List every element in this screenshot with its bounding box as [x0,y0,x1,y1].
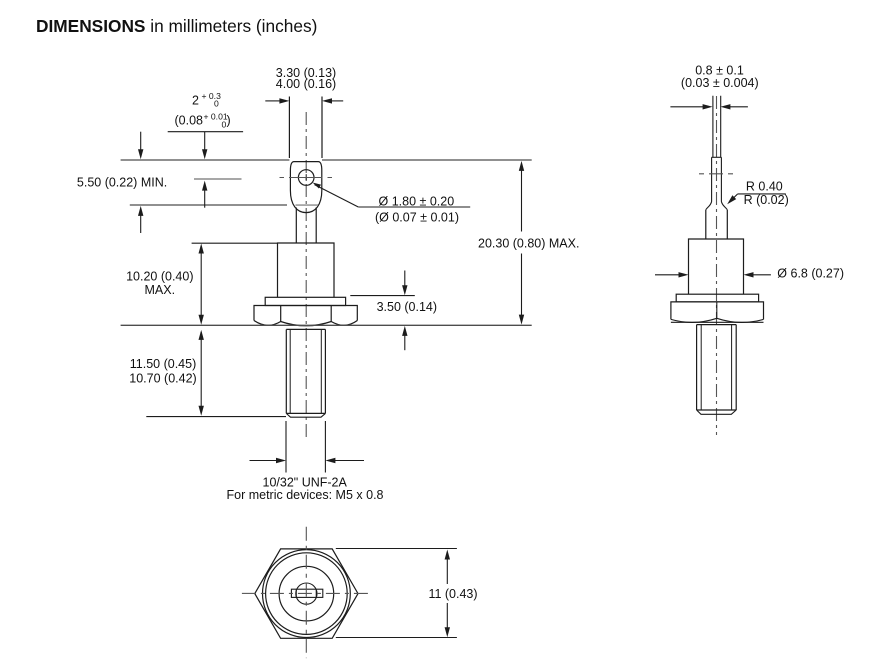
side view body [689,239,744,294]
lead width dim arrows [265,100,280,102]
bottom view chamfer inner circle [266,553,348,635]
svg-text:0: 0 [214,99,219,109]
lug hole center cross [303,174,310,181]
side view hex bottom line [671,321,764,323]
svg-text:DIMENSIONS in millimeters (inc: DIMENSIONS in millimeters (inches) [36,16,317,36]
lead stem below lug [296,208,316,244]
R0.40 leader [730,194,738,202]
dim line 11mm [446,552,448,584]
ext line flange top [350,295,415,297]
threaded stud front view [286,329,325,413]
front view centerline [305,112,307,439]
side view lead upper [713,96,721,158]
svg-text:(Ø 0.07 ± 0.01): (Ø 0.07 ± 0.01) [375,211,459,225]
ext line stud bottom [146,416,286,418]
hole dia leader [315,185,359,207]
svg-text:3.50 (0.14): 3.50 (0.14) [377,300,437,314]
flange washer [265,297,345,305]
3.50 arrow down [404,271,406,287]
dim line 11.50 [200,332,202,413]
bottom view horizontal centerline [242,592,372,594]
underline of 2mm text [168,131,243,133]
stud thread minor lines [290,329,321,413]
dim line 10.20 [200,246,202,322]
side view stud minor lines [701,325,731,410]
front view terminal lug [290,162,321,213]
reference line through lug (gray) [296,204,319,206]
svg-text:R 0.40: R 0.40 [746,180,783,194]
svg-text:Ø 1.80 ± 0.20: Ø 1.80 ± 0.20 [379,194,455,208]
side view flange [676,294,758,302]
5.50 arrow down above lug-top line [140,132,142,150]
stud bottom chamfer [286,413,325,417]
side view stud [697,325,737,410]
ext lines 11mm [336,549,457,638]
side view centerline [716,96,718,435]
svg-text:Ø 6.8 (0.27): Ø 6.8 (0.27) [777,267,844,281]
svg-text:11 (0.43): 11 (0.43) [428,587,477,601]
svg-text:): ) [227,114,231,128]
lead thickness arrows [670,106,703,108]
dim line 2mm (gray) [194,178,242,180]
5.50 arrow up below lug-bottom line [140,215,142,233]
lug hole horizontal centerline [280,177,333,179]
reference line lug bottom [130,204,287,206]
svg-text:10.70 (0.42): 10.70 (0.42) [129,371,196,385]
svg-text:4.00 (0.16): 4.00 (0.16) [276,77,336,91]
reference line hex bottom [121,324,532,326]
svg-text:For metric devices: M5 x 0.8: For metric devices: M5 x 0.8 [227,488,384,502]
side view lead lower [712,157,722,201]
bottom view chamfer circle [263,550,351,638]
svg-text:MAX.: MAX. [145,283,176,297]
side view hex chamfer arcs [671,318,764,322]
svg-text:5.50 (0.22) MIN.: 5.50 (0.22) MIN. [77,175,167,189]
svg-text:11.50 (0.45): 11.50 (0.45) [130,357,196,371]
stud ext lines [286,421,325,473]
hex facet edges [281,306,332,322]
svg-text:R (0.02): R (0.02) [744,193,789,207]
body dia arrows [655,274,679,276]
bottom view lead circle [296,583,317,604]
bottom view lead stem edges [296,589,316,597]
front view flattened lead [289,97,322,159]
bottom view vertical centerline [305,527,307,658]
side view hex [671,302,764,320]
bottom view hexagon [255,549,358,638]
2mm arrow up to gray line [204,190,206,208]
hex nut front view [254,306,357,321]
3.50 arrow up [404,335,406,350]
hex chamfer arcs [254,321,357,326]
svg-text:10.20 (0.40): 10.20 (0.40) [126,269,193,283]
reference line lug top [121,159,532,161]
svg-text:(0.03 ± 0.004): (0.03 ± 0.004) [681,76,759,90]
lug hole [298,170,314,186]
thread dim arrows [250,460,277,462]
2mm leader arrow down [204,132,206,150]
side view pin [706,210,728,239]
side view stud chamfer [697,410,737,414]
svg-text:20.30 (0.80) MAX.: 20.30 (0.80) MAX. [478,236,579,250]
ext line body top [192,242,278,244]
lead step tick [712,156,722,158]
side view hex center edge [716,302,718,318]
bottom view body circle [279,566,334,621]
dim line 20.30 [521,164,523,232]
lead flare R0.40 [706,202,728,210]
svg-text:2: 2 [192,93,199,107]
svg-text:(0.08: (0.08 [175,114,204,128]
bottom view lead tab [291,589,322,597]
device body cylinder [278,243,335,297]
side view lug horizontal centerline [699,173,735,175]
